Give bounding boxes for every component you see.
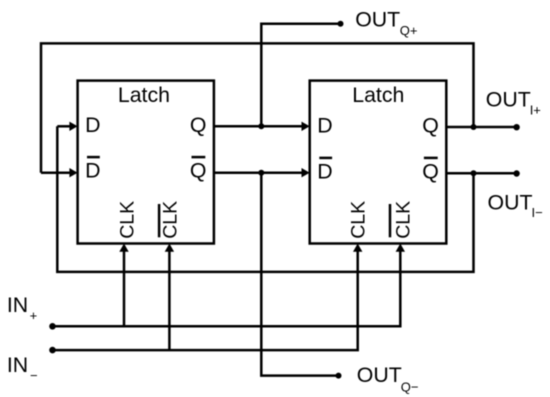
svg-text:CLK: CLK (348, 201, 370, 239)
svg-text:Latch: Latch (352, 83, 404, 107)
svg-text:Q+: Q+ (400, 23, 418, 38)
svg-text:IN: IN (7, 293, 28, 317)
svg-text:D: D (85, 159, 100, 183)
svg-text:Q: Q (190, 159, 207, 183)
svg-text:IN: IN (7, 353, 28, 377)
svg-text:I−: I− (532, 205, 543, 220)
svg-text:OUT: OUT (355, 8, 400, 32)
svg-text:Q: Q (190, 113, 207, 137)
svg-text:Q: Q (422, 113, 439, 137)
svg-text:−: − (30, 368, 38, 383)
svg-text:Q: Q (422, 159, 439, 183)
svg-text:Q−: Q− (401, 379, 419, 394)
svg-text:+: + (30, 308, 38, 323)
svg-text:Latch: Latch (118, 83, 170, 107)
svg-text:CLK: CLK (116, 201, 138, 239)
svg-text:CLK: CLK (160, 201, 182, 239)
svg-text:D: D (317, 159, 332, 183)
svg-text:I+: I+ (530, 103, 541, 118)
svg-text:OUT: OUT (357, 363, 402, 387)
svg-text:OUT: OUT (488, 190, 533, 214)
svg-text:D: D (317, 113, 332, 137)
svg-text:D: D (85, 113, 100, 137)
svg-text:OUT: OUT (486, 88, 531, 112)
svg-text:CLK: CLK (393, 201, 415, 239)
